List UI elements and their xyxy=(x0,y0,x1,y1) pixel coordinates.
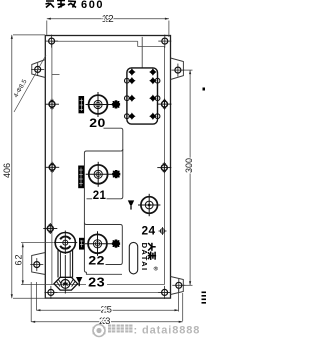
svg-text:24: 24 xyxy=(142,223,156,237)
svg-text:192: 192 xyxy=(102,14,114,25)
svg-text:DATAI: DATAI xyxy=(140,243,149,271)
svg-text:20: 20 xyxy=(89,116,106,130)
svg-text:600: 600 xyxy=(81,0,104,11)
svg-text:406: 406 xyxy=(2,163,12,178)
svg-text:300: 300 xyxy=(184,158,194,173)
svg-text:: datai8888: : datai8888 xyxy=(134,324,201,336)
svg-text:22: 22 xyxy=(88,253,105,267)
svg-text:23: 23 xyxy=(88,276,105,290)
svg-text:215: 215 xyxy=(100,305,112,316)
svg-text:®: ® xyxy=(154,266,159,273)
svg-text:62: 62 xyxy=(13,255,23,266)
svg-text:21: 21 xyxy=(93,188,107,202)
